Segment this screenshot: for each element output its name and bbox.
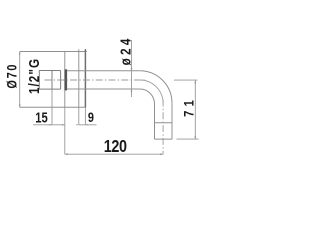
71 top arrow xyxy=(194,80,196,83)
threaded tail right edge xyxy=(60,71,62,90)
dimension and extension lines xyxy=(20,40,199,154)
aerator fitting top line xyxy=(155,122,173,124)
svg-text:15: 15 xyxy=(35,109,47,126)
vertical tube right wall xyxy=(171,103,173,139)
spout tip end line xyxy=(155,138,173,140)
15 left extension (thread line continued) xyxy=(51,89,53,125)
120 dimension line xyxy=(65,153,163,155)
horizontal axis centerline xyxy=(45,79,145,81)
flange front face (thick) xyxy=(84,49,86,107)
wall flange top edge + diameter top extension line xyxy=(20,51,87,53)
bend inner wall arc xyxy=(140,89,155,104)
15 dimension line xyxy=(33,124,65,126)
120 right arrow xyxy=(160,153,163,155)
9 dimension line xyxy=(79,124,97,126)
ø24 dimension line xyxy=(131,40,133,97)
Ø70 top arrow xyxy=(19,52,21,55)
wall flange bottom edge + diameter bottom extension line xyxy=(20,106,86,108)
9 left extension xyxy=(78,107,80,125)
svg-text:ø24: ø24 xyxy=(117,38,134,65)
flange joint line xyxy=(78,49,80,107)
flange back edge xyxy=(64,52,66,108)
svg-text:Ø70: Ø70 xyxy=(4,64,20,88)
71 top extension line (axis) xyxy=(174,79,198,81)
threaded tail top edge xyxy=(39,70,60,72)
Ø70 dimension line xyxy=(19,51,21,107)
71 dimension line xyxy=(194,80,196,139)
threaded tail end (left) edge xyxy=(38,70,40,90)
bend outer wall arc xyxy=(140,71,172,103)
vertical axis centerline / 120 right extension xyxy=(162,100,164,155)
15 left arrow xyxy=(49,124,52,126)
spout tube bottom wall xyxy=(67,88,140,90)
71 bottom extension line (tip) xyxy=(177,138,199,140)
svg-text:120: 120 xyxy=(104,137,127,157)
15 right extension / 120 left extension xyxy=(64,107,66,154)
svg-text:1/2"G: 1/2"G xyxy=(26,59,43,94)
ø24 top arrow xyxy=(131,68,133,71)
71 bottom arrow xyxy=(194,136,196,139)
15 right arrow xyxy=(62,124,65,126)
collar (dark bar) at flange back xyxy=(65,69,68,90)
thread start line xyxy=(51,71,53,90)
threaded tail bottom edge xyxy=(39,88,60,90)
120 left arrow xyxy=(65,153,68,155)
9 right arrow xyxy=(85,124,88,125)
arrowheads xyxy=(19,52,196,156)
spout tube top wall xyxy=(67,70,140,72)
ø24 bottom arrow xyxy=(131,89,133,92)
vertical tube left wall xyxy=(154,104,156,139)
Ø70 bottom arrow xyxy=(19,105,21,108)
bend axis centerline arc xyxy=(140,80,163,103)
svg-text:9: 9 xyxy=(88,110,94,126)
9 left arrow xyxy=(76,124,79,125)
centerlines (dash-dot) xyxy=(45,80,164,154)
9 right extension xyxy=(84,107,86,125)
